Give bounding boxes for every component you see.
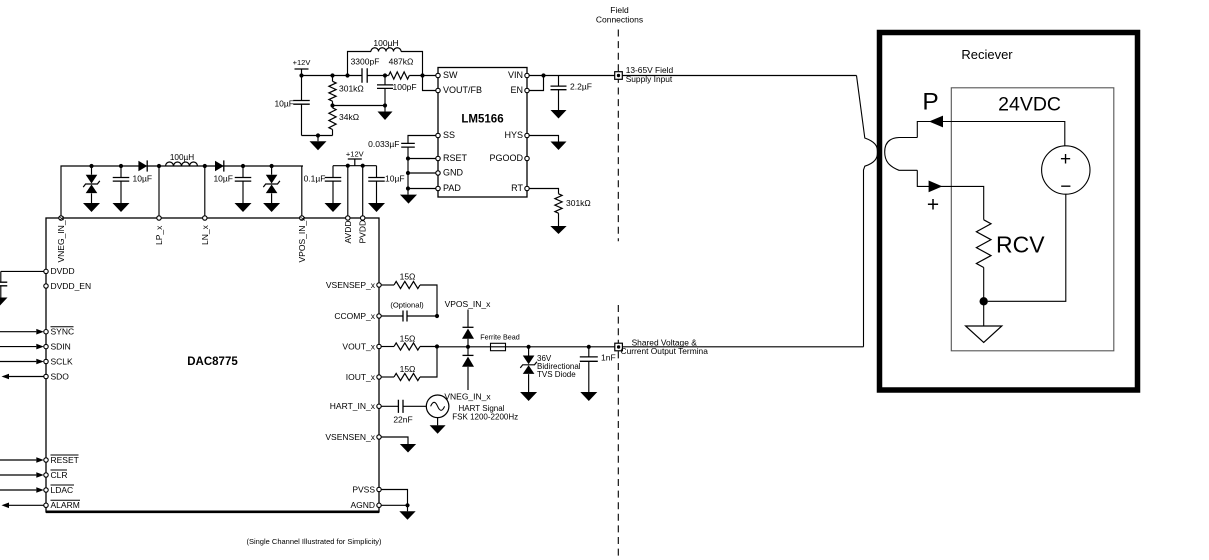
wire LDAC input [0,489,36,491]
svg-text:1nF: 1nF [601,353,616,363]
svg-text:AGND: AGND [350,500,375,510]
wire LP_x leg [158,166,160,216]
ground (HYS) [551,142,567,151]
svg-text:+12V: +12V [346,149,364,158]
svg-text:HART_IN_x: HART_IN_x [330,401,376,411]
pin PAD [436,186,440,190]
svg-text:+: + [927,194,939,217]
svg-text:SW: SW [443,70,458,80]
svg-text:3300pF: 3300pF [351,57,380,67]
wire bead to output terminal [506,346,615,348]
capacitor 0.1uF (AVDD bypass) [332,166,334,178]
pin IOUT_x [377,375,381,379]
wire field supply to receiver [622,75,856,77]
pin LDAC [44,488,48,492]
resistor 15 Ohm (VOUT) [381,346,394,348]
svg-text:(Optional): (Optional) [390,301,424,310]
node GND bus [406,171,410,175]
resistor 301kOhm (RT) [555,194,562,213]
svg-text:100µH: 100µH [170,153,194,162]
field connections dashed line lower [617,305,619,558]
node +12V rail [299,73,303,77]
wire AVDD/PVDD bus [333,165,377,167]
node 100pF top [383,73,387,77]
svg-text:22nF: 22nF [393,414,412,424]
svg-text:HYS: HYS [504,130,523,140]
wire GND pin [408,172,436,174]
wire DVDD bypass [1,270,44,272]
svg-text:Field: Field [610,5,629,15]
svg-text:487kΩ: 487kΩ [389,57,414,67]
node LP_x rail tap [157,164,161,168]
wire AGND [381,504,407,506]
pin VNEG_IN_x [59,216,63,220]
svg-text:VSENSEN_x: VSENSEN_x [325,432,375,442]
wire VOUT/FB pin tap [423,76,436,91]
wire SDIN input [0,346,36,348]
node 10uF cap2 tap [241,164,245,168]
wire PVDD leg [362,166,364,216]
transient diode TVS1 (VNEG rail) [91,166,93,175]
wire receiver P line [917,122,1065,146]
ground (AGND) [407,505,409,511]
svg-text:15Ω: 15Ω [400,272,416,282]
wire LN_x leg [204,166,206,216]
svg-text:EN: EN [510,85,523,95]
capacitor CCOMP optional [381,315,403,317]
node vout bus [435,344,439,348]
svg-text:PVSS: PVSS [352,484,375,494]
capacitor 3300pF (series feedforward) [362,68,367,82]
wire SCLK input [0,361,36,363]
node feedback mid [330,103,334,107]
capacitor 1nF [588,347,590,357]
svg-text:301kΩ: 301kΩ [566,198,591,208]
node SW/VOUT junction [420,73,424,77]
svg-text:+12V: +12V [293,58,311,67]
receiver outer box [880,33,1138,391]
node VIN/EN junction [541,73,545,77]
wire 3300pF to 487k [367,75,388,77]
+12V supply symbol (AVDD/PVDD) [348,159,362,166]
node feedback ground rail [316,133,320,137]
capacitor 10uF (VNEG rail) [120,166,122,177]
op-amp U1 LM5166 box [438,68,527,198]
pin PVSS [377,487,381,491]
wire SS pin to soft-start cap [408,136,436,144]
wire RESET input [0,459,36,461]
pin HYS [525,133,529,137]
diode clamp to VNEG_IN_x [467,347,469,356]
capacitor 10uF (PVDD bypass) [376,166,378,178]
svg-text:0.033µF: 0.033µF [368,139,399,149]
ground (receiver, open triangle) [983,301,985,326]
resistor 15 Ohm (VSENSEP) [381,284,394,286]
wire VIN to field supply input [529,75,615,77]
pin SS [436,133,440,137]
node PAD bus [406,186,410,190]
svg-text:DVDD_EN: DVDD_EN [51,281,92,291]
node receiver ground junction [980,297,988,305]
ground (feedback divider) [317,136,319,142]
wire VNEG protection rail [61,166,303,216]
svg-text:SYNC: SYNC [51,327,75,337]
op-amp U2 DAC8775 box [46,218,379,512]
terminal 13-65V field supply input [615,72,623,80]
pin VIN [525,73,529,77]
source HART signal generator [426,395,449,418]
svg-text:VOUT/FB: VOUT/FB [443,85,482,95]
svg-text:0.1µF: 0.1µF [304,174,326,184]
diode D2 (rail series, LN side) [215,161,224,171]
pin ALARM [44,503,48,507]
ground (10uF rail cap1) [113,203,130,212]
pin SDIN [44,344,48,348]
svg-text:34kΩ: 34kΩ [339,112,359,122]
svg-text:IOUT_x: IOUT_x [346,372,376,382]
pin CCOMP_x [377,314,381,318]
svg-text:15Ω: 15Ω [400,364,416,374]
pin RSET [436,156,440,160]
capacitor 100pF [384,76,386,85]
resistor 34kOhm (feedback bottom) [332,106,334,108]
pin VOUT_x [377,344,381,348]
node inductor left leg [345,73,349,77]
pin DVDD_EN [44,284,48,288]
node TVS1 rail tap [89,164,93,168]
pin LN_x [203,216,207,220]
svg-text:SS: SS [443,130,455,140]
ground (HART source) [430,425,446,434]
node 10uF cap1 tap [119,164,123,168]
svg-text:Current Output Termina: Current Output Termina [621,346,709,356]
resistor 15 Ohm (IOUT) [381,376,394,378]
pin CLR [44,473,48,477]
node clamp diodes junction [466,345,470,349]
svg-text:Reciever: Reciever [961,47,1013,62]
pin PGOOD [525,156,529,160]
capacitor 0.033uF (soft start) [401,143,415,147]
svg-text:VNEG_IN_x: VNEG_IN_x [56,215,66,262]
pin VPOS_IN_x [300,216,304,220]
resistor 301kOhm (feedback top) [330,73,334,77]
pin PVDD [361,216,365,220]
node ccomp bus [435,314,439,318]
ground (LM5166 GND bus) [400,195,417,204]
field connections dashed line upper [617,30,619,242]
ground (36V TVS) [520,392,537,401]
+12V supply symbol (LM5166 output) [295,69,309,76]
wire +12V rail to 3300pF [302,75,363,77]
resistor RCV [976,220,991,268]
svg-text:DAC8775: DAC8775 [187,356,238,368]
ground (DVDD cap) [0,298,8,307]
svg-text:24VDC: 24VDC [998,93,1061,115]
pin GND [436,171,440,175]
ground (100pF) [384,106,386,112]
svg-text:GND: GND [443,168,464,178]
node PVDD bus tap [361,164,365,168]
ground (10uF PVDD) [368,203,385,212]
svg-text:DVDD: DVDD [51,266,75,276]
svg-text:VOUT_x: VOUT_x [342,341,375,351]
arrowhead plus (current direction) [929,181,943,193]
svg-text:CLR: CLR [51,470,68,480]
pin SDO [44,374,48,378]
ground (TVS2) [263,203,280,212]
svg-text:15Ω: 15Ω [400,333,416,343]
wire VSENSEN to ground [381,437,408,444]
ground (VSENSEN) [400,444,416,453]
diode D1 (rail series, LP side) [138,161,147,171]
pin AGND [377,503,381,507]
svg-text:AVDD: AVDD [343,221,353,244]
svg-text:100pF: 100pF [393,82,417,92]
svg-text:VPOS_IN_x: VPOS_IN_x [297,216,307,263]
wire SS cap bus down [407,147,409,194]
transient diode 36V TVS [528,347,530,356]
capacitor 2.2uF (VIN bypass) [558,76,560,86]
svg-text:2.2µF: 2.2µF [570,81,592,91]
wire 24VDC source to ground node [988,194,1066,301]
capacitor 10uF (VPOS rail) [242,166,244,177]
terminal shared voltage and current output [615,343,623,351]
wire RT to 301k [529,189,558,194]
svg-text:LDAC: LDAC [51,485,74,495]
ferrite bead FB1 [491,343,506,350]
svg-text:ALARM: ALARM [51,500,80,510]
svg-text:LP_x: LP_x [154,225,164,245]
svg-text:RESET: RESET [51,455,79,465]
svg-text:10µF: 10µF [213,174,233,184]
svg-text:RCV: RCV [996,232,1045,258]
wire VPOS leg [301,166,303,216]
node 36V TVS tap [527,345,531,349]
resistor 487kOhm (series feedback) [389,72,410,79]
diode clamp to VPOS_IN_x [467,310,469,328]
wire twisted pair right (receiver side) [885,138,918,171]
ground (TVS1) [83,203,100,212]
pin VSENSEP_x [377,283,381,287]
wire feedback mid to 100pF bottom [333,105,386,107]
capacitor 10uF (LM5166 output cap) [301,76,303,101]
wire AVDD leg [347,166,349,216]
node LN_x rail tap [203,164,207,168]
svg-text:VSENSEP_x: VSENSEP_x [326,280,376,290]
transient diode TVS2 (VPOS rail) [271,166,273,175]
svg-text:Connections: Connections [596,15,643,25]
svg-text:+: + [1060,149,1071,170]
pin HART_IN_x [377,404,381,408]
svg-text:SDIN: SDIN [51,341,71,351]
pin RT [525,186,529,190]
inductor 100uH (LM5166 buck inductor loop) [348,52,372,76]
wire RSET pin [408,158,436,160]
svg-text:VPOS_IN_x: VPOS_IN_x [445,299,492,309]
pin SW [436,73,440,77]
pin VSENSEN_x [377,435,381,439]
wire HYS to ground [529,136,558,142]
svg-text:10µF: 10µF [133,174,153,184]
svg-text:SCLK: SCLK [51,356,74,366]
svg-text:100µH: 100µH [373,38,398,48]
svg-text:PAD: PAD [443,183,461,193]
svg-text:(Single Channel Illustrated fo: (Single Channel Illustrated for Simplici… [246,537,382,546]
receiver inner box [951,88,1114,351]
wire bottom feedback ground rail [302,135,333,137]
svg-text:TVS Diode: TVS Diode [537,370,576,379]
pin SCLK [44,359,48,363]
wire SDO output [9,376,44,378]
node PVSS/AGND junction [405,503,409,507]
wire EN pin tie to VIN [529,76,543,91]
pin VOUT/FB [436,88,440,92]
svg-text:VIN: VIN [508,70,523,80]
svg-text:PVDD: PVDD [358,220,368,244]
svg-text:LM5166: LM5166 [461,114,503,126]
ground (10uF rail cap2) [235,203,252,212]
svg-text:10µF: 10µF [274,98,294,108]
svg-text:Ferrite Bead: Ferrite Bead [480,333,520,342]
wire receiver plus line [917,170,983,220]
wire ALARM output [9,504,44,506]
pin LP_x [157,216,161,220]
ground (RT resistor) [550,226,566,234]
pin RESET [44,458,48,462]
ground (1nF) [580,392,597,401]
wire output line to ferrite bead [437,346,490,348]
node TVS2 rail tap [270,164,274,168]
node 1nF tap [587,345,591,349]
arrowhead P (current direction) [929,116,943,128]
ground (2.2uF) [551,110,567,119]
wire SYNC input [0,331,36,333]
svg-text:LN_x: LN_x [200,224,210,245]
node 100pF bottom [383,103,387,107]
pin AVDD [346,216,350,220]
svg-text:10µF: 10µF [385,174,405,184]
svg-text:FSK 1200-2200Hz: FSK 1200-2200Hz [452,412,518,421]
ground (0.1uF) [325,203,342,212]
inductor 100uH (channel rail) [166,162,198,166]
wire HART_IN to 22nF [381,405,398,407]
wire 487k to SW pin [409,75,436,77]
svg-text:CCOMP_x: CCOMP_x [334,311,375,321]
svg-text:PGOOD: PGOOD [489,153,523,163]
pin DVDD [44,269,48,273]
capacitor 22nF (HART coupling) [398,400,403,413]
svg-text:301kΩ: 301kΩ [339,84,364,94]
svg-text:P: P [922,89,938,116]
wire output terminal to receiver [622,346,863,348]
node RSET bus [406,156,410,160]
wire twisted pair left (field side) [857,76,878,347]
pin SYNC [44,330,48,334]
pin EN [525,88,529,92]
svg-text:RT: RT [511,183,523,193]
source 24VDC battery circle [1042,146,1090,194]
wire CLR input [0,474,36,476]
svg-text:VNEG_IN_x: VNEG_IN_x [444,392,491,402]
node AVDD bus tap [346,164,350,168]
svg-text:RSET: RSET [443,153,468,163]
wire PVSS to AGND [381,490,407,506]
wire PAD pin [408,188,436,190]
svg-text:SDO: SDO [51,371,70,381]
capacitor DVDD bypass (clipped at edge) [0,282,7,286]
